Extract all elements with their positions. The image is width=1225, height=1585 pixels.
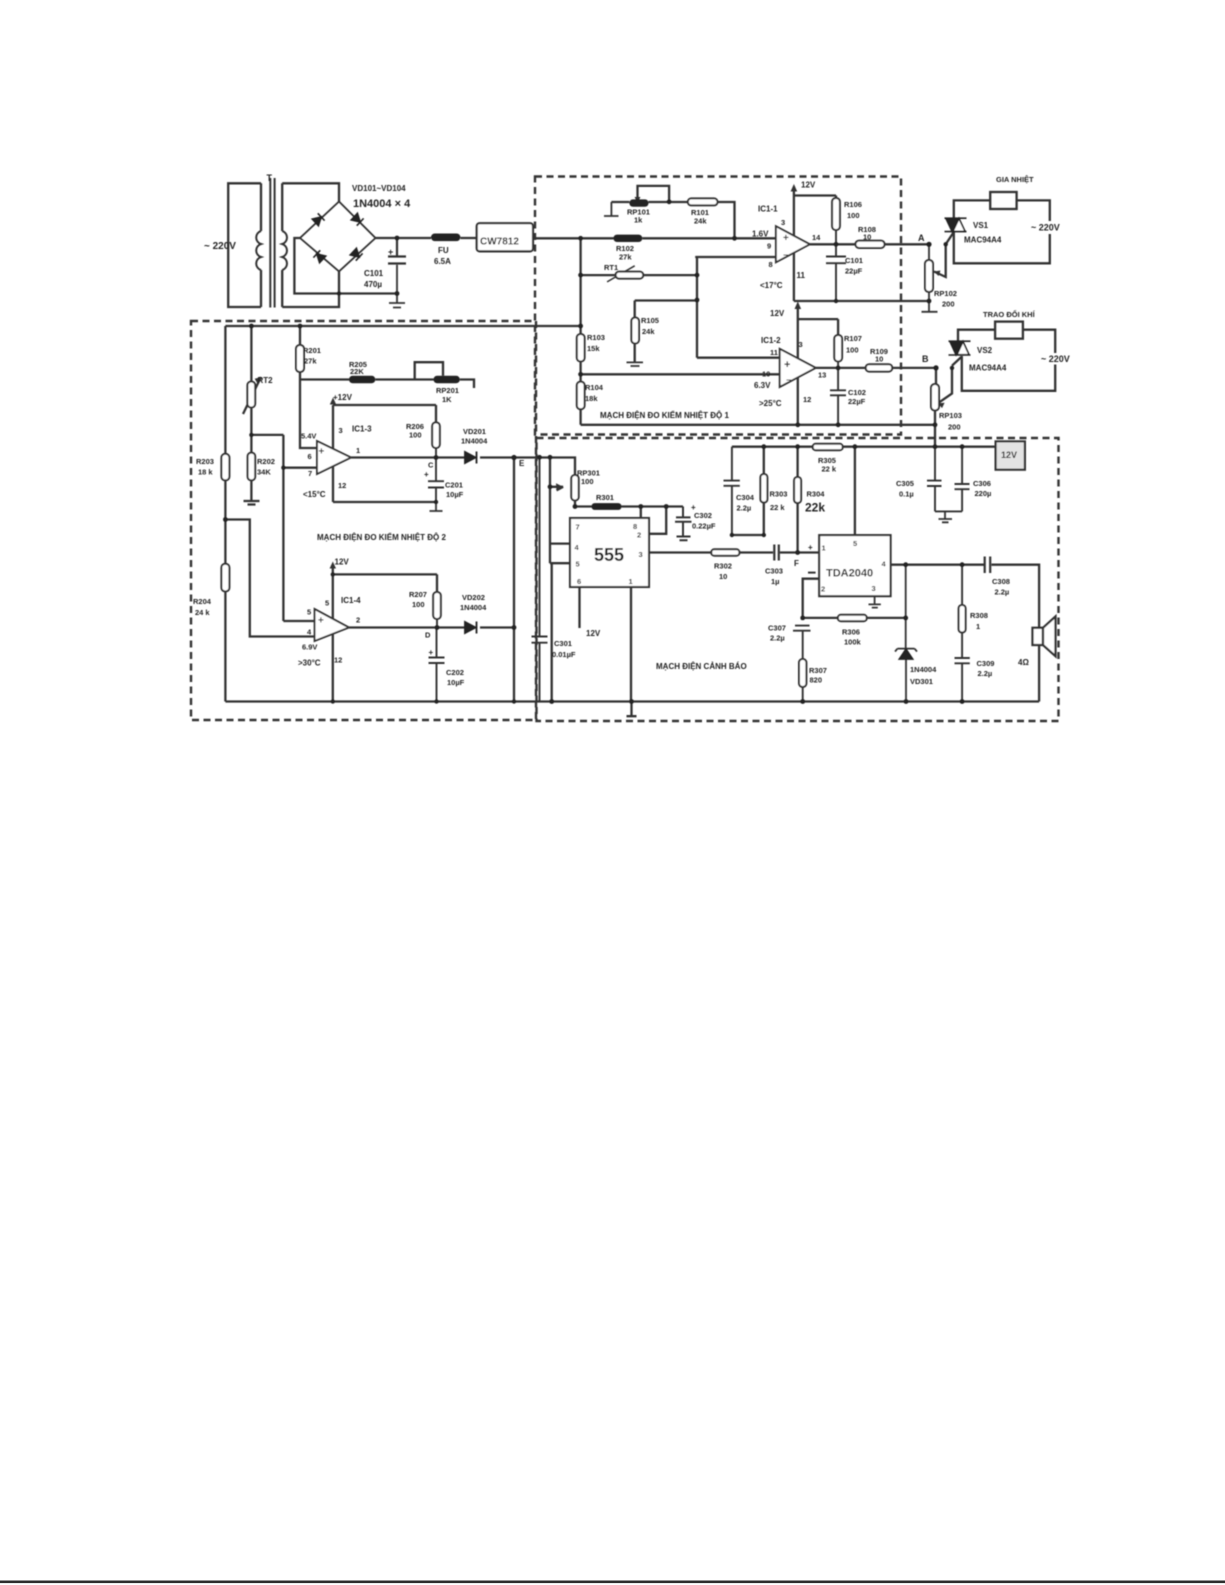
svg-text:22µF: 22µF <box>848 397 866 406</box>
svg-text:+: + <box>783 233 789 244</box>
svg-text:220µ: 220µ <box>975 489 992 498</box>
svg-text:10: 10 <box>863 233 871 242</box>
svg-text:B: B <box>922 354 929 364</box>
svg-text:RT2: RT2 <box>258 376 274 385</box>
svg-text:+: + <box>691 503 696 512</box>
svg-text:470µ: 470µ <box>364 280 382 289</box>
svg-text:100k: 100k <box>844 638 862 647</box>
svg-text:IC1-3: IC1-3 <box>352 425 372 434</box>
svg-text:MẠCH ĐIỆN CẢNH BÁO: MẠCH ĐIỆN CẢNH BÁO <box>656 662 747 671</box>
svg-text:IC1-1: IC1-1 <box>758 205 778 214</box>
svg-text:IC1-4: IC1-4 <box>341 596 361 605</box>
svg-text:100: 100 <box>847 211 860 220</box>
svg-text:~ 220V: ~ 220V <box>1041 354 1070 364</box>
svg-text:RP102: RP102 <box>934 289 957 298</box>
svg-text:R107: R107 <box>844 334 862 343</box>
svg-text:R301: R301 <box>596 493 614 502</box>
svg-text:10: 10 <box>762 370 770 379</box>
svg-text:MAC94A4: MAC94A4 <box>964 236 1002 245</box>
svg-text:7: 7 <box>308 469 312 478</box>
svg-text:R307: R307 <box>809 666 827 675</box>
svg-text:0.1µ: 0.1µ <box>899 490 914 499</box>
svg-text:TRAO ĐỔI KHÍ: TRAO ĐỔI KHÍ <box>983 310 1036 319</box>
svg-text:2: 2 <box>821 585 825 594</box>
svg-text:D: D <box>425 631 431 640</box>
svg-text:MAC94A4: MAC94A4 <box>969 364 1007 373</box>
svg-text:R105: R105 <box>641 316 659 325</box>
svg-text:A: A <box>918 233 925 243</box>
svg-text:1N4004: 1N4004 <box>460 603 487 612</box>
svg-text:27k: 27k <box>304 357 317 366</box>
svg-text:1: 1 <box>822 544 826 553</box>
svg-text:2.2µ: 2.2µ <box>770 634 785 643</box>
svg-text:1.6V: 1.6V <box>752 230 769 239</box>
svg-text:C309: C309 <box>977 659 995 668</box>
svg-text:12V: 12V <box>586 629 601 638</box>
svg-text:VD101~VD104: VD101~VD104 <box>352 184 406 193</box>
svg-text:R202: R202 <box>257 457 275 466</box>
svg-text:MẠCH ĐIỆN ĐO KIỂM NHIỆT ĐỘ 2: MẠCH ĐIỆN ĐO KIỂM NHIỆT ĐỘ 2 <box>317 533 446 542</box>
svg-text:12: 12 <box>334 656 342 665</box>
svg-text:22K: 22K <box>350 367 364 376</box>
svg-text:R302: R302 <box>714 562 732 571</box>
svg-text:2.2µ: 2.2µ <box>995 588 1010 597</box>
svg-text:−: − <box>783 250 788 260</box>
svg-text:5: 5 <box>853 539 857 548</box>
svg-text:RP201: RP201 <box>436 386 459 395</box>
svg-text:1N4004: 1N4004 <box>461 437 488 446</box>
svg-text:14: 14 <box>812 233 821 242</box>
svg-text:12: 12 <box>338 481 346 490</box>
svg-text:10µF: 10µF <box>446 490 464 499</box>
svg-text:4Ω: 4Ω <box>1018 658 1029 667</box>
svg-text:C301: C301 <box>554 639 572 648</box>
svg-text:820: 820 <box>810 676 823 685</box>
svg-text:R308: R308 <box>970 611 988 620</box>
svg-text:1N4004: 1N4004 <box>910 665 937 674</box>
svg-text:+: + <box>318 616 324 627</box>
svg-text:12V: 12V <box>1001 450 1017 460</box>
svg-text:22 k: 22 k <box>770 503 785 512</box>
svg-text:555: 555 <box>594 545 624 565</box>
svg-text:1: 1 <box>629 577 633 586</box>
svg-text:9: 9 <box>767 242 771 251</box>
svg-text:5: 5 <box>576 560 580 569</box>
svg-text:<17°C: <17°C <box>760 281 783 290</box>
svg-text:6.3V: 6.3V <box>754 381 771 390</box>
svg-text:C201: C201 <box>445 481 463 490</box>
svg-text:2.2µ: 2.2µ <box>737 504 752 513</box>
svg-text:C305: C305 <box>896 479 914 488</box>
svg-text:TDA2040: TDA2040 <box>826 568 873 580</box>
svg-text:C302: C302 <box>694 511 712 520</box>
svg-text:VS1: VS1 <box>973 221 989 230</box>
svg-text:3: 3 <box>781 218 785 227</box>
svg-text:VD301: VD301 <box>910 677 933 686</box>
svg-text:0.01µF: 0.01µF <box>552 650 576 659</box>
svg-text:+: + <box>429 648 434 657</box>
svg-text:R204: R204 <box>193 597 212 606</box>
svg-text:3: 3 <box>799 340 803 349</box>
svg-text:11: 11 <box>797 271 806 280</box>
svg-text:100: 100 <box>409 431 422 440</box>
svg-text:2.2µ: 2.2µ <box>978 669 993 678</box>
svg-text:22k: 22k <box>805 501 825 515</box>
svg-text:1µ: 1µ <box>771 577 780 586</box>
svg-text:R303: R303 <box>770 490 788 499</box>
svg-text:−: − <box>786 375 791 385</box>
svg-text:VD201: VD201 <box>463 427 486 436</box>
svg-text:34K: 34K <box>257 468 271 477</box>
svg-text:F: F <box>794 559 799 568</box>
svg-text:C306: C306 <box>973 479 991 488</box>
svg-text:12V: 12V <box>335 558 350 567</box>
svg-text:R201: R201 <box>303 346 321 355</box>
svg-text:7: 7 <box>576 523 580 532</box>
svg-text:2: 2 <box>356 616 360 625</box>
svg-text:C101: C101 <box>364 269 384 278</box>
svg-text:10: 10 <box>719 572 727 581</box>
svg-text:18 k: 18 k <box>198 468 213 477</box>
svg-text:18k: 18k <box>585 394 598 403</box>
svg-text:6: 6 <box>308 452 312 461</box>
svg-text:1K: 1K <box>442 395 452 404</box>
svg-text:1k: 1k <box>634 216 643 225</box>
svg-text:200: 200 <box>942 300 955 309</box>
svg-text:VD202: VD202 <box>462 593 485 602</box>
svg-text:<15°C: <15°C <box>303 490 326 499</box>
svg-text:2: 2 <box>637 531 641 540</box>
svg-text:10: 10 <box>875 355 883 364</box>
svg-text:12: 12 <box>803 395 811 404</box>
svg-text:RT1: RT1 <box>604 263 618 272</box>
svg-text:100: 100 <box>846 346 859 355</box>
svg-text:R103: R103 <box>587 333 605 342</box>
svg-text:24 k: 24 k <box>195 608 210 617</box>
svg-text:200: 200 <box>948 423 961 432</box>
svg-text:R306: R306 <box>842 628 860 637</box>
svg-text:C202: C202 <box>446 668 464 677</box>
svg-text:MẠCH ĐIỆN ĐO KIỂM NHIỆT ĐỘ 1: MẠCH ĐIỆN ĐO KIỂM NHIỆT ĐỘ 1 <box>600 411 729 420</box>
svg-text:+: + <box>808 543 813 552</box>
svg-text:C: C <box>428 461 434 470</box>
svg-text:1: 1 <box>356 446 360 455</box>
svg-text:27k: 27k <box>619 253 632 262</box>
svg-text:6.9V: 6.9V <box>302 643 317 652</box>
svg-text:R304: R304 <box>807 490 826 499</box>
svg-text:6.5A: 6.5A <box>434 257 451 266</box>
svg-text:3: 3 <box>872 584 876 593</box>
svg-text:13: 13 <box>818 371 826 380</box>
svg-text:5.4V: 5.4V <box>301 432 316 441</box>
svg-text:FU: FU <box>438 246 449 255</box>
svg-text:~ 220V: ~ 220V <box>204 241 236 252</box>
svg-text:100: 100 <box>412 600 425 609</box>
svg-text:CW7812: CW7812 <box>480 237 519 248</box>
svg-text:+: + <box>784 359 790 371</box>
svg-text:24k: 24k <box>642 327 655 336</box>
svg-text:>30°C: >30°C <box>298 659 321 668</box>
svg-text:12V: 12V <box>770 309 785 318</box>
svg-text:R203: R203 <box>196 457 214 466</box>
svg-text:C308: C308 <box>992 577 1010 586</box>
svg-text:C303: C303 <box>765 567 783 576</box>
svg-text:R207: R207 <box>409 590 427 599</box>
svg-text:~ 220V: ~ 220V <box>1031 223 1060 233</box>
svg-text:+12V: +12V <box>333 393 353 402</box>
svg-text:E: E <box>519 459 525 468</box>
svg-text:C102: C102 <box>848 388 866 397</box>
svg-text:R104: R104 <box>585 383 604 392</box>
svg-text:+: + <box>424 470 429 479</box>
svg-text:22 k: 22 k <box>822 465 837 474</box>
svg-text:22µF: 22µF <box>845 267 863 276</box>
svg-text:0.22µF: 0.22µF <box>692 522 716 531</box>
svg-text:T: T <box>267 173 273 183</box>
svg-text:>25°C: >25°C <box>759 399 782 408</box>
svg-text:12V: 12V <box>801 181 816 190</box>
svg-text:15k: 15k <box>587 344 600 353</box>
svg-text:+: + <box>319 447 325 458</box>
svg-text:+: + <box>388 247 393 257</box>
svg-text:11: 11 <box>770 348 778 357</box>
svg-text:R106: R106 <box>844 200 862 209</box>
svg-text:C307: C307 <box>768 624 786 633</box>
svg-text:24k: 24k <box>694 217 707 226</box>
svg-text:100: 100 <box>581 477 594 486</box>
svg-text:6: 6 <box>577 577 581 586</box>
svg-text:5: 5 <box>307 608 311 617</box>
svg-text:5: 5 <box>325 599 329 608</box>
svg-text:3: 3 <box>339 426 343 435</box>
svg-text:C304: C304 <box>736 493 755 502</box>
svg-text:C101: C101 <box>845 256 863 265</box>
svg-text:1N4004 × 4: 1N4004 × 4 <box>353 198 411 210</box>
svg-text:8: 8 <box>769 260 773 269</box>
svg-text:VS2: VS2 <box>977 346 993 355</box>
svg-text:GIA NHIỆT: GIA NHIỆT <box>996 175 1034 184</box>
svg-text:1: 1 <box>976 622 980 631</box>
svg-text:RP103: RP103 <box>939 411 962 420</box>
svg-text:10µF: 10µF <box>447 678 465 687</box>
svg-text:IC1-2: IC1-2 <box>761 336 781 345</box>
svg-text:3: 3 <box>639 550 643 559</box>
